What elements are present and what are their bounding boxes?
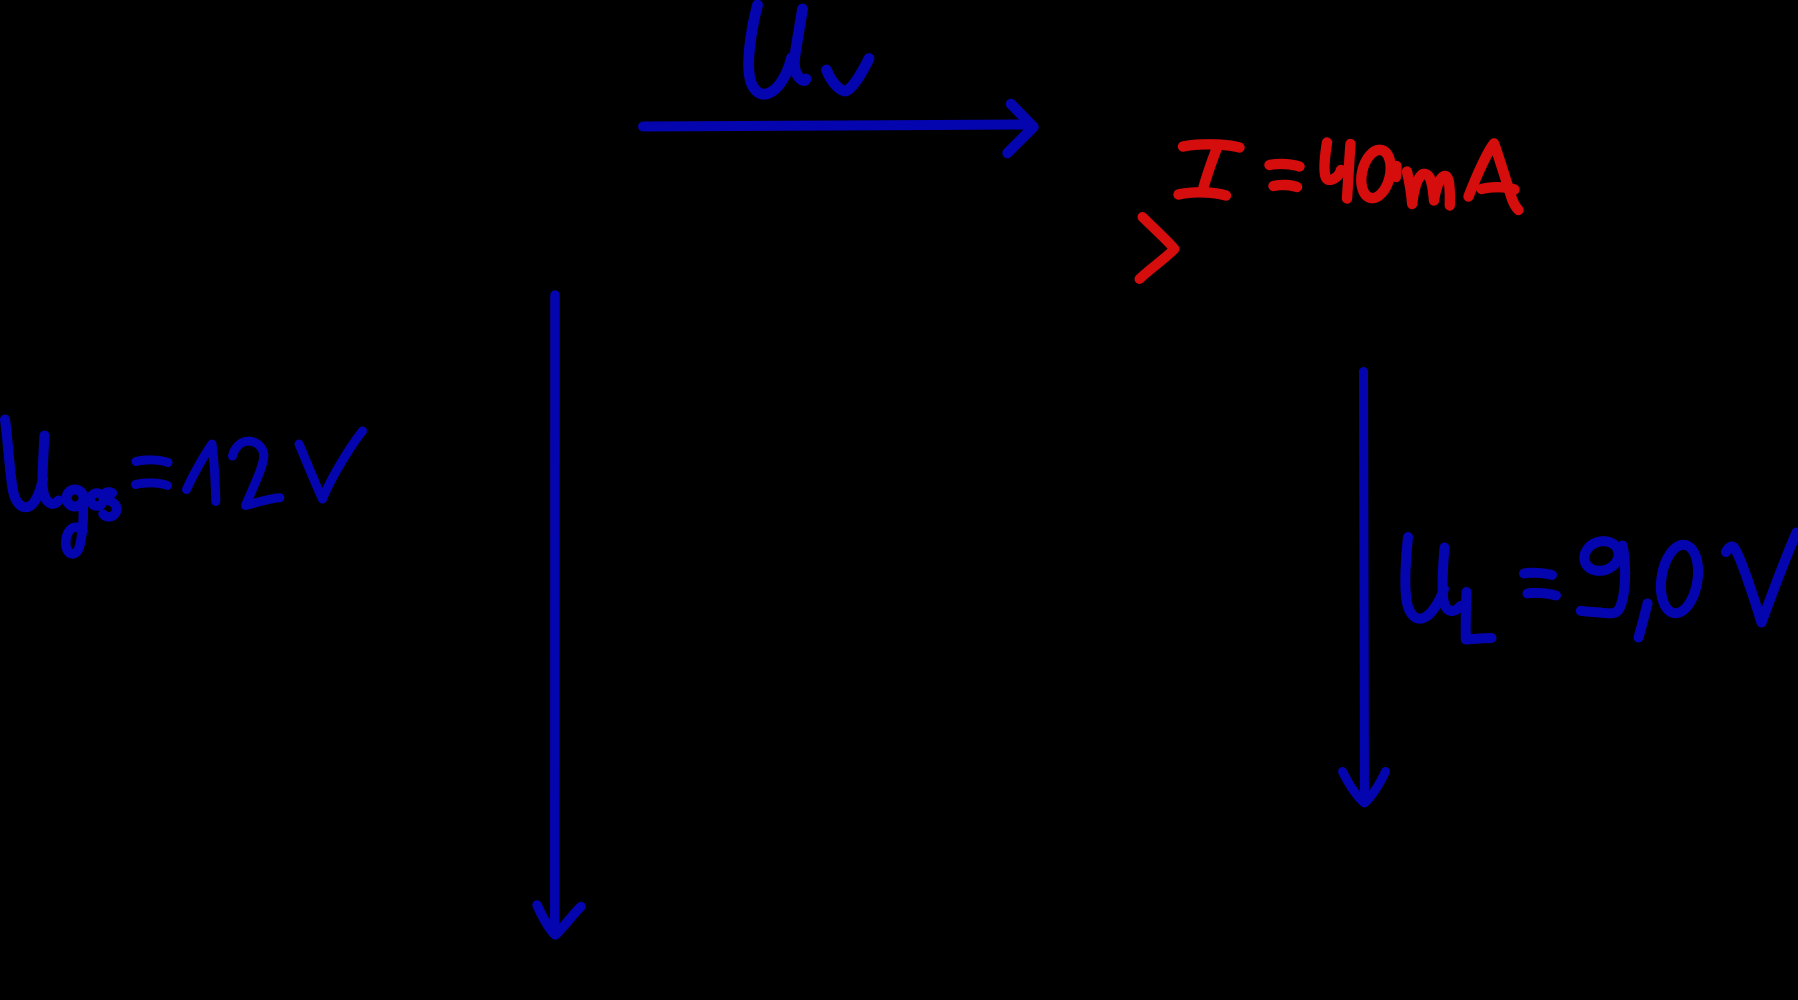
label Uv (voltage across resistor) xyxy=(749,5,869,94)
current direction chevron (red) xyxy=(1140,217,1175,279)
voltage arrow Uges (long vertical, pointing down) xyxy=(537,295,581,935)
voltage arrow Uv (horizontal, pointing right) xyxy=(643,104,1034,153)
current label I = 40mA (red) xyxy=(1179,143,1519,211)
label Uges = 12 V xyxy=(5,420,363,554)
label UL = 9,0 V xyxy=(1405,533,1796,640)
voltage arrow UL (right vertical, pointing down) xyxy=(1343,372,1386,804)
